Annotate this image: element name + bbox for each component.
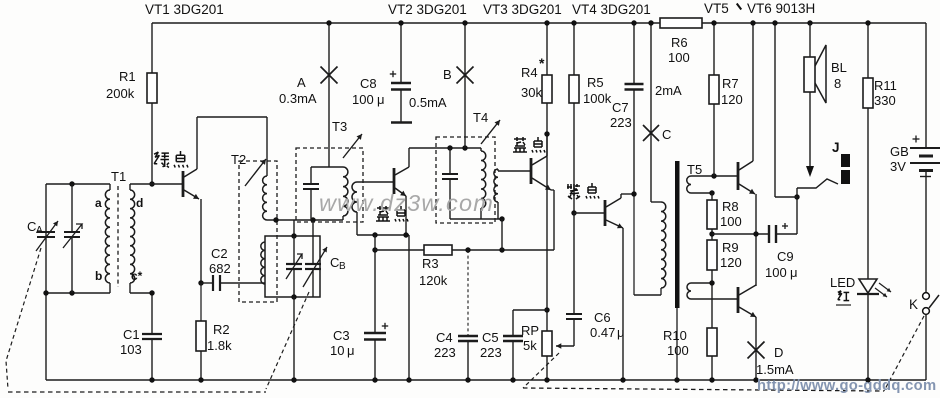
svg-text:103: 103 <box>120 342 142 357</box>
svg-text:C8: C8 <box>360 76 377 91</box>
svg-text:100k: 100k <box>583 91 612 106</box>
svg-text:K: K <box>909 297 918 312</box>
svg-text:200k: 200k <box>106 86 135 101</box>
svg-text:223: 223 <box>434 345 456 360</box>
svg-text:VT1 3DG201: VT1 3DG201 <box>145 2 224 17</box>
svg-text:223: 223 <box>610 115 632 130</box>
svg-text:www.dz3w.com: www.dz3w.com <box>319 190 494 216</box>
svg-text:R6: R6 <box>671 35 688 50</box>
svg-text:R8: R8 <box>722 199 739 214</box>
svg-text:C6: C6 <box>594 310 611 325</box>
svg-text:120k: 120k <box>419 273 448 288</box>
svg-text:C4: C4 <box>436 330 453 345</box>
svg-text:120: 120 <box>721 92 743 107</box>
svg-text:VT2 3DG201: VT2 3DG201 <box>388 2 467 17</box>
svg-text:a: a <box>95 196 102 210</box>
svg-text:A: A <box>36 225 43 236</box>
svg-text:T5: T5 <box>687 162 702 177</box>
svg-text:B: B <box>339 261 346 272</box>
svg-text:8: 8 <box>834 76 841 91</box>
svg-text:RP: RP <box>521 323 539 338</box>
svg-text:R10: R10 <box>663 328 687 343</box>
svg-text:T3: T3 <box>332 119 347 134</box>
svg-text:A: A <box>297 75 306 90</box>
svg-text:C5: C5 <box>482 330 499 345</box>
svg-text:T1: T1 <box>111 169 126 184</box>
svg-text:C7: C7 <box>612 100 629 115</box>
svg-text:R4: R4 <box>521 65 538 80</box>
svg-text:0.3mA: 0.3mA <box>279 91 317 106</box>
svg-text:T2: T2 <box>231 152 246 167</box>
svg-text:C1: C1 <box>123 327 140 342</box>
svg-text:30k: 30k <box>521 85 542 100</box>
svg-text:100: 100 <box>765 265 787 280</box>
svg-text:b: b <box>95 269 102 283</box>
svg-text:R7: R7 <box>722 76 739 91</box>
svg-text:330: 330 <box>874 93 896 108</box>
svg-text:VT6 9013H: VT6 9013H <box>747 1 815 16</box>
svg-text:R11: R11 <box>874 78 897 93</box>
svg-text:R2: R2 <box>213 322 230 337</box>
svg-text:T4: T4 <box>473 110 488 125</box>
svg-text:μ: μ <box>377 92 385 107</box>
svg-text:BL: BL <box>831 60 847 75</box>
svg-text:223: 223 <box>480 345 502 360</box>
svg-text:C: C <box>662 127 671 142</box>
svg-text:J: J <box>832 140 840 155</box>
svg-text:C9: C9 <box>777 249 794 264</box>
svg-text:100: 100 <box>352 92 374 107</box>
svg-text:100: 100 <box>667 343 689 358</box>
svg-text:R3: R3 <box>422 256 439 271</box>
svg-text:c*: c* <box>131 269 143 283</box>
svg-text:http://www.go-gddq.com: http://www.go-gddq.com <box>757 378 936 394</box>
svg-text:R9: R9 <box>722 240 739 255</box>
svg-text:0.5mA: 0.5mA <box>409 95 447 110</box>
svg-text:VT4 3DG201: VT4 3DG201 <box>572 2 651 17</box>
svg-text:C: C <box>330 255 339 270</box>
svg-text:μ: μ <box>790 265 798 280</box>
svg-text:B: B <box>443 67 452 82</box>
svg-text:C3: C3 <box>333 328 350 343</box>
svg-text:1.8k: 1.8k <box>207 338 232 353</box>
svg-text:R5: R5 <box>587 75 604 90</box>
svg-text:100: 100 <box>720 214 742 229</box>
svg-text:0.47: 0.47 <box>590 325 615 340</box>
svg-text:2mA: 2mA <box>655 83 682 98</box>
svg-text:C2: C2 <box>211 246 228 261</box>
svg-text:C: C <box>27 219 36 234</box>
svg-text:μ: μ <box>347 343 355 358</box>
svg-text:GB: GB <box>890 144 909 159</box>
svg-text:682: 682 <box>209 261 231 276</box>
svg-text:d: d <box>136 196 143 210</box>
svg-text:D: D <box>774 345 783 360</box>
svg-text:3V: 3V <box>890 159 906 174</box>
svg-text:LED: LED <box>830 275 855 290</box>
svg-text:1.5mA: 1.5mA <box>756 362 794 377</box>
svg-text:VT5: VT5 <box>704 1 729 16</box>
svg-text:VT3 3DG201: VT3 3DG201 <box>483 2 562 17</box>
svg-text:10: 10 <box>330 343 344 358</box>
svg-text:120: 120 <box>720 255 742 270</box>
svg-text:5k: 5k <box>523 338 537 353</box>
svg-text:R1: R1 <box>119 69 136 84</box>
svg-text:*: * <box>539 55 545 71</box>
svg-text:100: 100 <box>668 50 690 65</box>
